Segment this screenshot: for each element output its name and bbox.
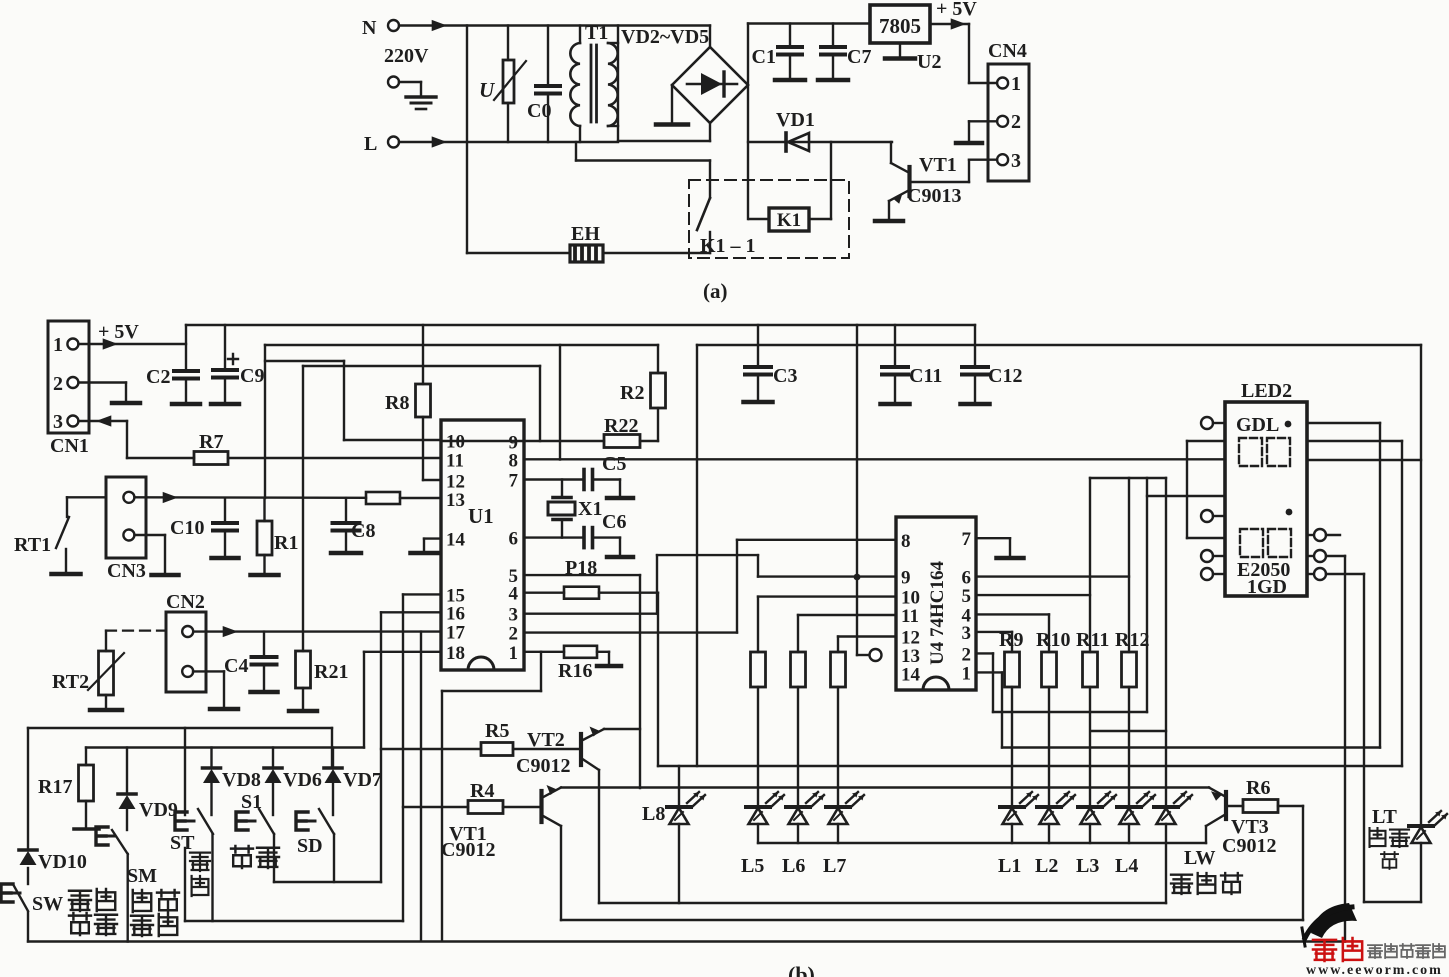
wire R5 to VT2 <box>513 748 581 750</box>
wire y766 line <box>658 765 1402 767</box>
ground earth symbol <box>406 97 436 109</box>
wire CN3 pin2 gnd <box>135 535 166 573</box>
svg-text:R9: R9 <box>999 629 1023 651</box>
wire pin7 <box>524 478 584 480</box>
svg-text:14: 14 <box>901 664 921 685</box>
svg-text:SW: SW <box>32 893 63 915</box>
svg-text:C6: C6 <box>602 511 626 533</box>
svg-text:VD8: VD8 <box>222 769 261 791</box>
label SM <box>127 865 157 887</box>
pin CN2-2 <box>182 666 193 677</box>
wire bottom EH rail <box>467 252 710 254</box>
wire L5 cath <box>757 824 759 843</box>
ground U4 pin7 <box>997 556 1024 561</box>
pin U4-8 label <box>901 531 911 552</box>
svg-text:16: 16 <box>446 603 465 624</box>
wire x1147 drop <box>1146 478 1148 712</box>
wire riser x265 <box>264 345 266 498</box>
wire pin17 drop <box>420 632 422 941</box>
svg-text:R22: R22 <box>604 415 638 437</box>
resistor R15a <box>831 652 846 687</box>
ground bridge minus <box>656 85 688 125</box>
svg-text:R17: R17 <box>38 776 72 798</box>
wire RT2 dashed <box>106 629 166 631</box>
wire rail A <box>186 324 975 326</box>
ground R16 <box>597 664 621 669</box>
capacitor C12 <box>961 325 1023 404</box>
watermark url <box>1306 963 1443 977</box>
ground U2 <box>885 43 941 73</box>
svg-text:1: 1 <box>509 643 519 664</box>
wire CN1 pin3 <box>79 415 195 458</box>
pin U1-10 label <box>446 432 465 453</box>
transistor VT1 C9013 <box>889 142 961 219</box>
resistor R14a <box>791 652 806 687</box>
pin U4-3 label <box>962 623 972 644</box>
wire L6 column <box>797 687 799 807</box>
capacitor C6 <box>584 511 633 557</box>
LED L1 <box>998 792 1038 877</box>
wire pin18 drop <box>364 652 441 748</box>
svg-text:K1 – 1: K1 – 1 <box>700 235 756 257</box>
wire pin15 drop <box>403 594 441 921</box>
wire U4 pin12 to R <box>838 637 896 653</box>
svg-text:X1: X1 <box>578 498 602 520</box>
svg-text:CN1: CN1 <box>50 435 89 457</box>
wire U4 pin7 gnd <box>976 538 1010 556</box>
switch ST <box>175 809 213 921</box>
segment digits lower <box>1240 529 1291 557</box>
svg-text:9: 9 <box>901 568 911 589</box>
resistor R7 <box>194 431 228 465</box>
pin U1-13 label <box>446 490 465 511</box>
switch K1-1 <box>697 198 710 253</box>
svg-text:L6: L6 <box>782 855 805 877</box>
pin U4-5 label <box>962 586 972 607</box>
svg-text:R8: R8 <box>385 392 409 414</box>
wire C2 riser <box>185 325 187 371</box>
LED L3 <box>1076 792 1116 877</box>
pin U1-18 label <box>446 643 465 664</box>
capacitor C9 <box>211 325 264 404</box>
svg-text:L8: L8 <box>642 803 665 825</box>
svg-text:L: L <box>364 133 377 155</box>
wire LT bottom <box>1364 901 1421 903</box>
diode VD8 <box>203 748 261 816</box>
wire pin1 to R16 <box>541 651 564 653</box>
capacitor C2 <box>146 366 200 404</box>
pin U4-10 label <box>901 588 920 609</box>
pin CN4-1 <box>997 73 1021 95</box>
pin U4-12 label <box>901 628 920 649</box>
wire LED2 y496 feed <box>1147 495 1225 497</box>
wire box top edge <box>28 728 332 768</box>
wire L8 column <box>678 766 680 903</box>
svg-text:3: 3 <box>509 605 519 626</box>
capacitor C4 <box>224 632 278 692</box>
resistor R17 <box>38 748 99 830</box>
pin U4-13 bubble <box>857 649 882 661</box>
wire anode rail y788 <box>561 786 1209 788</box>
wire earth <box>399 82 421 96</box>
wire U4 pin5 to R11 <box>976 594 1090 596</box>
pin CN1-1 <box>53 334 78 356</box>
svg-text:1: 1 <box>962 663 972 684</box>
wire CN4 pin3 to VT1 base <box>911 160 997 182</box>
svg-text:C11: C11 <box>909 365 942 387</box>
pin U1-7 label <box>509 471 519 492</box>
pin LED2 right1 <box>1307 529 1340 541</box>
pin LED2 left4 <box>1201 568 1225 580</box>
wire U4 pin1 loop <box>976 423 1380 748</box>
svg-text:R2: R2 <box>620 382 644 404</box>
svg-text:R10: R10 <box>1036 629 1070 651</box>
switch SM <box>96 827 128 942</box>
crystal X1 <box>548 480 602 538</box>
svg-text:LED2: LED2 <box>1241 380 1292 402</box>
wire CN3 pin1 <box>135 492 367 503</box>
wire VT1b collector drop <box>560 826 562 920</box>
wire U4 pin11 to R <box>798 615 896 652</box>
wire rail y920 <box>561 919 1303 921</box>
resistor R16 <box>558 646 597 682</box>
wire CN1 pin2 gnd <box>79 383 127 402</box>
svg-text:VD2~VD5: VD2~VD5 <box>621 26 709 48</box>
wire ST lower <box>184 848 186 921</box>
wire VD1 line <box>748 141 892 143</box>
label 220V <box>384 45 429 67</box>
wire CN2 pin2 gnd <box>193 671 224 707</box>
wire pin8 long <box>524 458 1225 460</box>
pin CN1-2 <box>53 373 78 395</box>
svg-text:(b): (b) <box>788 962 815 977</box>
ground CN1 pin2 <box>112 401 140 406</box>
wire rail B left <box>265 344 658 346</box>
pin LED2 right2 <box>1307 550 1345 562</box>
svg-text:L1: L1 <box>998 855 1021 877</box>
svg-text:C10: C10 <box>170 517 204 539</box>
svg-text:1GD: 1GD <box>1247 576 1287 598</box>
wire pin17 CN2 line <box>193 626 441 637</box>
resistor R9 <box>999 629 1023 687</box>
wire pin1 stub <box>442 652 541 941</box>
svg-text:C9012: C9012 <box>1222 835 1276 857</box>
segment digits upper <box>1239 438 1290 466</box>
svg-text:VD9: VD9 <box>139 799 178 821</box>
wire pin6 <box>524 536 584 538</box>
bridge rectifier VD2~VD5 <box>672 47 748 123</box>
wire x1364 column <box>1363 574 1365 902</box>
pin U1-3 label <box>509 605 519 626</box>
label LT deng <box>1381 852 1398 869</box>
label ST <box>170 832 195 854</box>
pin CN4-3 <box>997 150 1021 172</box>
wire R4 line <box>403 806 468 808</box>
node earth terminal <box>388 77 399 88</box>
LED L2 <box>1035 792 1075 877</box>
wire y365 link <box>303 366 540 441</box>
wire top rail section a <box>399 20 710 31</box>
transistor VT2 C9012 <box>516 727 640 778</box>
wire R6 drop <box>1278 806 1303 920</box>
svg-text:3: 3 <box>962 623 972 644</box>
capacitor C5 <box>584 453 633 498</box>
wire pin9 R22 line <box>441 440 604 442</box>
svg-text:U2: U2 <box>917 51 941 73</box>
svg-text:13: 13 <box>446 490 465 511</box>
label VD2~VD5 <box>621 26 709 48</box>
capacitor C1 <box>752 24 805 81</box>
pin U4-14 label <box>901 664 921 685</box>
wire U4 pin10 to R <box>758 597 896 652</box>
svg-text:RT2: RT2 <box>52 671 89 693</box>
svg-text:C0: C0 <box>527 100 551 122</box>
diode VD7 <box>324 748 382 816</box>
watermark site text <box>1368 944 1445 958</box>
svg-text:L4: L4 <box>1115 855 1138 877</box>
wire rail y941 <box>28 940 1345 942</box>
wire pin10 <box>344 439 441 441</box>
svg-text:VD7: VD7 <box>343 769 382 791</box>
pin U4-11 label <box>901 606 919 627</box>
capacitor C3 <box>744 325 798 402</box>
diode VD6 <box>264 748 322 816</box>
resistor R6 <box>1243 777 1278 813</box>
wire U4 pin4 to R10 <box>976 614 1049 652</box>
resistor R13 pin13 series <box>366 492 400 504</box>
wire box left edge <box>27 728 29 942</box>
capacitor C10 <box>170 498 239 558</box>
svg-text:VD1: VD1 <box>776 109 815 131</box>
resistor R13a <box>751 652 766 687</box>
resistor R10 <box>1036 629 1070 687</box>
pin U1-4 label <box>509 584 519 605</box>
wire L2 column <box>1048 687 1050 807</box>
svg-text:5: 5 <box>962 586 972 607</box>
svg-text:C5: C5 <box>602 453 626 475</box>
pin LED2 left2 <box>1201 510 1225 522</box>
wire rail y903 <box>599 902 1166 904</box>
svg-text:LT: LT <box>1372 806 1398 828</box>
wire L3 cath <box>1089 824 1091 843</box>
wire pin14 ground <box>424 539 441 551</box>
resistor R22 <box>604 415 640 448</box>
wire pin2 right <box>524 540 737 633</box>
pin CN2-1 <box>182 626 193 637</box>
wire y921 line <box>185 920 403 922</box>
svg-text:RT1: RT1 <box>14 534 51 556</box>
svg-text:T1: T1 <box>585 22 608 44</box>
svg-text:VT1: VT1 <box>919 154 957 176</box>
svg-text:L2: L2 <box>1035 855 1058 877</box>
resistor R2 <box>620 345 666 441</box>
pin U4-2 label <box>962 644 972 665</box>
pin LED2 left3 <box>1201 550 1225 562</box>
pin U1-2 label <box>509 624 519 645</box>
label P18 <box>565 557 597 579</box>
wire K1 left <box>749 218 769 220</box>
label gongneng xuanze <box>131 890 179 936</box>
heater EH <box>570 223 603 262</box>
resistor R1 <box>251 498 299 575</box>
svg-text:C7: C7 <box>847 46 871 68</box>
resistor R8 <box>385 325 431 480</box>
wire K1 right <box>809 142 831 219</box>
pin LED2 left1 <box>1201 417 1225 429</box>
varistor U <box>479 26 526 143</box>
wire LW column <box>1165 478 1167 903</box>
transistor VT3 C9012 <box>1206 788 1276 858</box>
pin U4-4 label <box>962 605 972 626</box>
svg-text:11: 11 <box>901 606 919 627</box>
pin U4-1 label <box>962 663 972 684</box>
svg-text:3: 3 <box>1011 150 1021 172</box>
wire L6 cath <box>797 824 799 843</box>
wire L2 cath <box>1048 824 1050 843</box>
wire LED2 U link <box>1187 441 1225 538</box>
pin U1-8 label <box>509 450 519 471</box>
resistor R5 <box>481 720 513 756</box>
label K1-1 <box>700 235 756 257</box>
LED L7 <box>823 792 864 877</box>
wire CN4 pin2 ground <box>969 121 997 141</box>
label GDL <box>1236 414 1291 436</box>
regulator U2 7805 <box>870 5 930 43</box>
wire U4 pin8 line <box>737 539 896 541</box>
svg-text:2: 2 <box>53 373 63 395</box>
switch S1 dingshi <box>236 809 274 882</box>
transformer T1 <box>570 22 618 142</box>
svg-text:LW: LW <box>1184 847 1216 869</box>
wire rail B right <box>697 344 1421 346</box>
connector CN3 <box>106 477 146 582</box>
pin U1-17 label <box>446 623 466 644</box>
capacitor C7 <box>818 24 871 81</box>
svg-text:8: 8 <box>509 450 519 471</box>
wire R5 line <box>381 748 481 750</box>
svg-text:C1: C1 <box>752 46 776 68</box>
svg-text:CN3: CN3 <box>107 560 146 582</box>
wire R16 gnd <box>597 652 609 664</box>
svg-text:www.eeworm.com: www.eeworm.com <box>1306 963 1443 977</box>
node L terminal <box>364 133 399 155</box>
label LW <box>1184 847 1216 869</box>
svg-text:18: 18 <box>446 643 465 664</box>
wire U4 pin3 to R9 <box>976 632 1012 652</box>
svg-text:+ 5V: + 5V <box>936 0 977 20</box>
wire LED2 right y423 <box>1307 422 1380 424</box>
pin U1-5 label <box>509 566 519 587</box>
wire riser x303 <box>302 366 304 651</box>
pin CN4-2 <box>997 111 1021 133</box>
resistor R4 <box>468 780 503 814</box>
wire L1 column <box>1011 687 1013 807</box>
resistor R21 <box>289 651 348 711</box>
wire pin4 <box>524 592 564 594</box>
svg-text:C8: C8 <box>351 520 375 542</box>
wire R7 to pin11 <box>228 457 441 459</box>
connector CN1 <box>48 321 89 457</box>
svg-text:VD6: VD6 <box>283 769 322 791</box>
wire to CN4 pin1 <box>969 24 997 83</box>
wire VT3 collector <box>1205 826 1207 843</box>
svg-text:GDL: GDL <box>1236 414 1279 436</box>
svg-text:C4: C4 <box>224 655 248 677</box>
svg-text:C2: C2 <box>146 366 170 388</box>
svg-text:SM: SM <box>127 865 157 887</box>
svg-text:N: N <box>362 17 377 39</box>
LED L4 <box>1115 792 1155 877</box>
svg-text:14: 14 <box>446 530 466 551</box>
svg-text:C9: C9 <box>240 365 264 387</box>
svg-text:(a): (a) <box>703 279 728 303</box>
wire L4 column <box>1128 687 1130 807</box>
svg-text:C9013: C9013 <box>907 185 961 207</box>
wire U4 pin9 line <box>758 575 896 577</box>
wire riser x560 <box>559 345 561 460</box>
pin U1-12 label <box>446 472 465 493</box>
svg-text:4: 4 <box>509 584 519 605</box>
svg-text:U4 74HC164: U4 74HC164 <box>927 561 948 665</box>
wire +5V output <box>930 0 977 30</box>
svg-text:7: 7 <box>962 529 972 550</box>
pin U4-7 label <box>962 529 972 550</box>
svg-text:2: 2 <box>509 624 519 645</box>
svg-text:VD10: VD10 <box>38 851 87 873</box>
svg-text:C9012: C9012 <box>516 755 570 777</box>
pin U1-14 label <box>446 530 466 551</box>
label S1 <box>241 791 262 813</box>
watermark cap <box>1302 903 1357 946</box>
wire ST upper <box>184 728 186 815</box>
svg-text:1: 1 <box>53 334 63 356</box>
wire x1345 column <box>1344 556 1346 942</box>
IC U1 <box>441 420 524 670</box>
svg-text:7805: 7805 <box>879 14 921 38</box>
svg-text:R16: R16 <box>558 660 592 682</box>
ground CN2 pin2 <box>210 707 238 712</box>
svg-text:2: 2 <box>962 644 972 665</box>
pin U4-9 label <box>901 568 911 589</box>
wire pin3 jog <box>524 555 758 614</box>
wire VT2 collector drop <box>598 770 600 903</box>
diode VD9 <box>118 748 178 831</box>
relay K1 coil <box>769 208 809 231</box>
wire secondary loop box <box>618 26 710 142</box>
svg-text:U1: U1 <box>468 504 494 528</box>
svg-text:8: 8 <box>901 531 911 552</box>
svg-text:R7: R7 <box>199 431 223 453</box>
resistor R12 <box>1115 629 1149 687</box>
dot mid <box>1286 509 1293 516</box>
svg-text:3: 3 <box>53 411 63 433</box>
display LED2 box <box>1225 380 1307 596</box>
svg-text:L3: L3 <box>1076 855 1099 877</box>
pin CN1-3 <box>53 411 78 433</box>
label SW <box>32 893 63 915</box>
ground pin14 <box>411 551 438 556</box>
connector CN4 <box>988 40 1029 181</box>
label dingshi <box>231 846 279 868</box>
label (b) <box>788 962 815 977</box>
label LT <box>1372 806 1398 828</box>
svg-text:1: 1 <box>1011 73 1021 95</box>
pin U4-6 label <box>962 568 972 589</box>
wire y361 link <box>265 361 344 440</box>
wire LED2 right y441 <box>1307 441 1402 766</box>
wire plus rail to 7805 <box>748 22 870 24</box>
wire R22 to R2 <box>640 440 658 442</box>
